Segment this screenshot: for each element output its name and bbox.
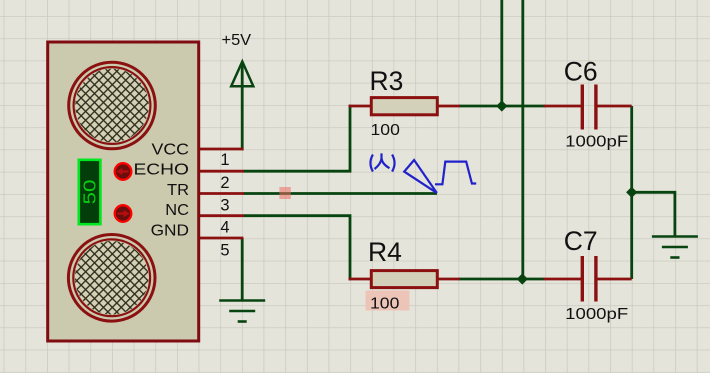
svg-text:C6: C6 [564, 56, 598, 86]
svg-text:R4: R4 [368, 237, 402, 267]
svg-text:R3: R3 [370, 66, 404, 96]
svg-text:TR: TR [167, 182, 189, 199]
svg-text:50: 50 [80, 180, 100, 205]
svg-text:3: 3 [220, 197, 229, 215]
svg-text:100: 100 [371, 122, 401, 139]
svg-text:100: 100 [370, 296, 400, 313]
svg-text:5: 5 [220, 241, 229, 259]
svg-text:1000pF: 1000pF [565, 133, 628, 150]
svg-text:VCC: VCC [152, 142, 190, 159]
svg-text:1000pF: 1000pF [565, 306, 628, 323]
svg-text:1: 1 [220, 151, 229, 169]
svg-text:4: 4 [220, 219, 229, 237]
svg-text:NC: NC [165, 202, 189, 219]
svg-text:ECHO: ECHO [134, 162, 190, 179]
svg-text:C7: C7 [564, 226, 598, 256]
svg-text:+5V: +5V [222, 32, 252, 49]
svg-text:GND: GND [151, 222, 189, 239]
svg-text:2: 2 [220, 174, 229, 192]
